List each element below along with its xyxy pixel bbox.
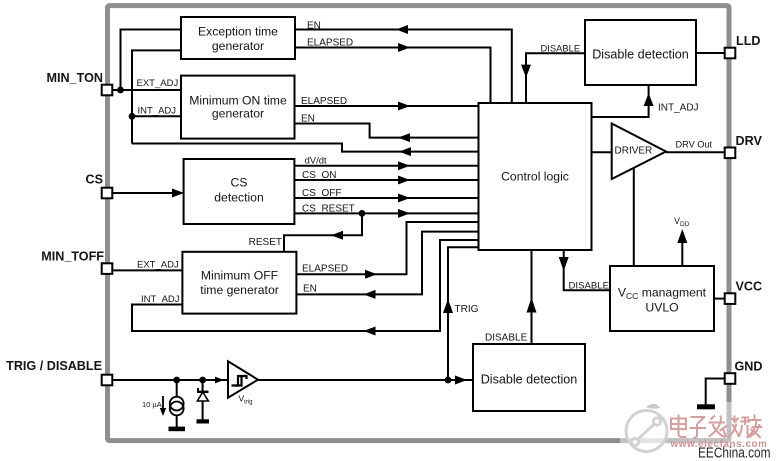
wire CS_RESET [294,212,478,214]
wire CS_ON [294,179,478,181]
ground under current source [169,427,186,432]
wire EXT_ADJ MIN_TOFF [112,269,182,271]
svg-text:EN: EN [307,21,321,32]
svg-text:ELAPSED: ELAPSED [301,96,347,107]
wire INT_ADJ Min OFF loop from Control logic [132,240,479,331]
wire INT_ADJ line under Min ON box to Control logic [132,144,479,152]
wire CS pin into CS detection [112,192,178,194]
svg-text:RESET: RESET [249,237,282,248]
node E junction dot diode tap [199,377,206,384]
wire DRIVER down to UVLO [633,168,635,267]
svg-text:DISABLE: DISABLE [569,281,610,292]
wire DISABLE from top Disable detection to Control logic [526,53,585,103]
block U8 Disable detection (bottom) [473,344,585,411]
wire ELAPSED Min OFF to Control logic [296,222,478,274]
svg-text:EEChina.com: EEChina.com [698,445,771,461]
svg-text:EXT_ADJ: EXT_ADJ [137,260,179,271]
block U5 Control logic [479,103,592,250]
wire EN Min OFF from Control logic [296,232,478,295]
wire EN Min ON from Control logic [295,124,479,138]
svg-text:VCC: VCC [736,279,763,293]
pin VCC [725,279,762,304]
svg-text:CS: CS [231,175,248,189]
svg-text:CS: CS [86,172,104,186]
chip boundary (outer gray border) [108,6,730,441]
ground near GND pin [697,404,715,409]
svg-text:CS_ON: CS_ON [302,170,336,181]
wire dV/dt [294,165,478,167]
svg-text:LLD: LLD [736,34,760,48]
svg-text:EXT_ADJ: EXT_ADJ [137,78,179,89]
watermark red chinese characters 电子发烧友 [671,415,762,439]
pin MIN_TON [47,71,113,95]
block U6 Disable detection (top) [585,20,696,85]
svg-text:EN: EN [303,284,317,295]
wire main TRIG/DISABLE line [112,379,228,381]
svg-text:INT_ADJ: INT_ADJ [138,106,177,117]
wire junction up to Exception generator input [121,30,182,91]
svg-text:INT_ADJ: INT_ADJ [658,103,699,114]
svg-text:CS_OFF: CS_OFF [302,188,341,199]
svg-text:Minimum OFF: Minimum OFF [201,269,278,283]
svg-text:DRIVER: DRIVER [615,146,653,157]
wire INT_ADJ into Minimum ON generator [132,115,181,117]
block U3 CS detection [184,159,295,224]
node A junction dot MIN_TON [117,87,124,94]
wire UVLO to VCC pin [714,298,725,300]
svg-text:ELAPSED: ELAPSED [307,38,353,49]
svg-text:generator: generator [212,107,264,121]
block U1 Exception time generator [181,17,295,59]
svg-text:TRIG / DISABLE: TRIG / DISABLE [6,359,102,373]
wire EN Exception to Control logic [295,30,512,104]
node D junction dot current source tap [173,377,180,384]
wire EXT_ADJ into Minimum ON generator [121,89,182,91]
current source I1 10 uA [142,380,184,427]
ground under diode [197,419,210,423]
watermark logo circle [626,404,667,452]
block U4 Minimum OFF time generator [182,252,296,314]
wire DISABLE from Control logic to UVLO [564,250,610,290]
svg-text:Control logic: Control logic [501,170,569,184]
svg-text:detection: detection [214,191,263,205]
svg-text:Exception time: Exception time [198,25,278,39]
pin CS [86,172,113,198]
svg-text:ELAPSED: ELAPSED [302,264,348,275]
pin DRV [725,134,763,158]
wire GND pin to ground [706,379,725,405]
pin LLD [725,34,761,58]
wire CS_OFF [294,197,478,199]
pin MIN_TOFF [41,249,112,274]
arrow into Disable detection bottom [455,376,467,385]
node F junction dot TRIG branch [445,377,452,384]
svg-text:DRV: DRV [736,134,763,148]
wire Control logic to DRIVER [592,151,612,153]
svg-text:generator: generator [212,39,264,53]
wire ELAPSED Min ON to Control logic [295,105,479,107]
watermark halo [620,402,777,452]
wire INT_ADJ vertical branch [132,50,181,143]
svg-text:Disable detection: Disable detection [481,373,578,387]
svg-text:TRIG: TRIG [455,304,479,315]
svg-text:time generator: time generator [200,283,279,297]
svg-text:Minimum ON time: Minimum ON time [189,94,287,108]
wire MIN_TON pin to junction [112,89,122,91]
svg-text:MIN_TOFF: MIN_TOFF [41,249,104,263]
wire ELAPSED Exception to Control logic [295,48,491,104]
pin TRIG / DISABLE [6,359,112,385]
svg-text:DISABLE: DISABLE [541,43,581,54]
wire DRIVER output to DRV pin [666,151,725,153]
wire INT_ADJ Control logic to top Disable detection [592,85,649,117]
comparator U10 Schmitt trigger Vtrig [228,361,258,405]
svg-text:dV/dt: dV/dt [305,156,328,167]
svg-text:INT_ADJ: INT_ADJ [141,294,180,305]
block U7 Vcc managment UVLO [610,266,714,331]
svg-text:10 µA: 10 µA [142,400,162,409]
svg-text:GND: GND [735,360,763,374]
svg-text:DISABLE: DISABLE [485,333,528,344]
svg-text:UVLO: UVLO [645,301,678,315]
wire top Disable detection to LLD pin [696,52,725,54]
block U2 Minimum ON time generator [181,76,295,139]
wire DISABLE from bottom Disable detection to Control logic [531,250,533,344]
wire RESET to Minimum OFF generator [284,213,362,251]
pin GND [725,360,763,384]
svg-text:CS_RESET: CS_RESET [302,203,355,214]
node B junction dot INT_ADJ [129,113,136,120]
svg-text:MIN_TON: MIN_TON [47,71,103,85]
wire TRIG to Control logic [448,247,479,380]
diode D1 [197,380,209,420]
svg-text:DRV Out: DRV Out [676,140,713,150]
node C junction dot CS_RESET [359,210,366,217]
svg-text:Disable detection: Disable detection [592,48,689,62]
power VDD symbol [681,240,683,266]
svg-text:EN: EN [301,114,315,125]
op-amp U9 DRIVER triangle [612,124,666,180]
